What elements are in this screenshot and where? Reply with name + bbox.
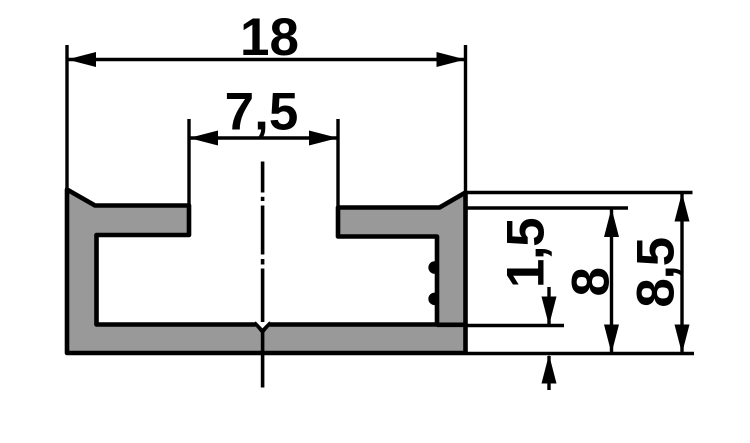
svg-text:7,5: 7,5 [225,83,299,142]
dimension 7,5: extension line left [187,119,190,206]
dimension 18: dimension line with arrows [67,52,466,67]
V marking notch at bottom center [255,321,271,332]
dimension 1,5: lower leader arrow pointing up [542,355,557,391]
svg-text:8: 8 [562,267,621,296]
dimension 18: value label [240,8,299,67]
dimension 8,5: top extension line [467,191,693,194]
dimension 8,5: dimension line with arrows [675,193,690,354]
dimension 7,5: value label [225,83,299,142]
svg-text:18: 18 [240,8,299,67]
dimension 8: top extension line [467,206,628,209]
dimension 7,5: extension line right [336,119,339,208]
dimension 8: dimension line with arrows [604,208,619,354]
dimension 18: extension line left [65,45,68,190]
dimension 8: value label [562,267,621,296]
dimension 1,5: upper leader arrow pointing down [542,287,557,326]
dimension 1,5: inner-bottom extension line [437,322,564,327]
screw-boss bump upper on inner right wall [428,261,437,274]
dimension 1,5: value label [497,219,556,288]
bottom extension line shared by 8 and 8,5 [466,352,694,355]
svg-text:8,5: 8,5 [627,238,686,307]
svg-text:1,5: 1,5 [497,219,556,288]
dimension 18: extension line right [464,45,467,193]
profile cross-section body [67,190,466,354]
centerline (vertical dash-dot axis) [261,162,265,388]
dimension 7,5: dimension line with arrows [189,131,338,146]
screw-boss bump lower on inner right wall [428,293,437,306]
dimension 8,5: value label [627,238,686,307]
